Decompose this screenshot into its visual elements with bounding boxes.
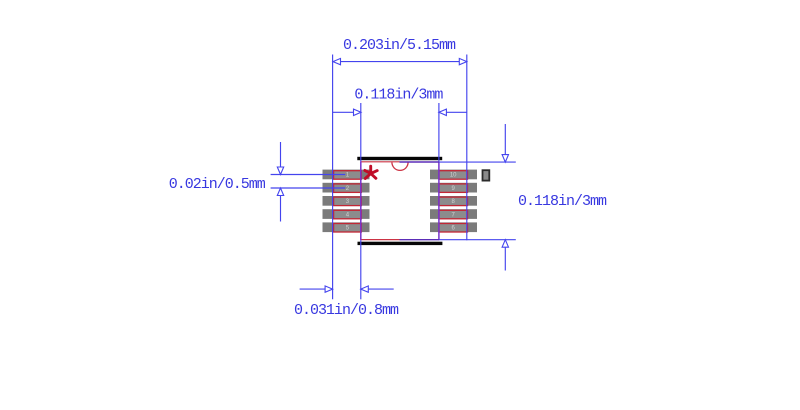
- svg-text:0.118in/3mm: 0.118in/3mm: [354, 87, 443, 104]
- pin 4 lead outline: [334, 210, 362, 219]
- extension line body-right above package (3mm top dimension): [438, 103, 440, 161]
- pad 9: [430, 183, 477, 193]
- pin 1 lead outline: [334, 171, 362, 180]
- package body bottom bar (silkscreen): [358, 242, 443, 245]
- svg-text:0.203in/5.15mm: 0.203in/5.15mm: [343, 37, 456, 54]
- pin 10 lead outline: [439, 171, 468, 180]
- pad 3: [323, 196, 370, 206]
- arrowhead 3mm right down: [502, 155, 508, 163]
- leader line body top to right (3mm right dimension): [439, 161, 516, 163]
- pin 5 lead outline: [334, 224, 362, 233]
- leader line pad2 center (0.5mm dimension): [271, 187, 346, 189]
- arrowhead 5.15mm left (points left): [333, 58, 341, 64]
- extension line body-left below package (0.8mm dimension): [360, 240, 362, 299]
- arrowhead 3mm right up: [502, 240, 508, 248]
- pin 7 lead outline: [439, 210, 468, 219]
- pad 10 (right copper pad): [430, 170, 477, 180]
- dimension line vertical lower (0.5mm): [280, 188, 282, 222]
- pin 2 lead outline: [334, 184, 362, 193]
- arrowhead 0.5mm up: [277, 188, 283, 196]
- dimension arrow tail left (0.8mm bottom): [300, 288, 333, 290]
- svg-text:10: 10: [450, 173, 457, 179]
- arrowhead 0.5mm down: [277, 167, 283, 175]
- pin 1 marker asterisk: [365, 166, 377, 178]
- dimension arrow tail right (3mm top): [439, 111, 467, 113]
- pad 7: [430, 209, 477, 219]
- dimension arrow tail right (0.8mm bottom): [361, 288, 394, 290]
- leader overlap purple segment body bottom edge: [400, 239, 439, 241]
- leader line body bottom to right (3mm right dimension): [439, 239, 516, 241]
- pin 9 lead outline: [439, 184, 468, 193]
- pin 3 lead outline: [334, 197, 362, 206]
- extension line right (5.15mm dimension): [466, 55, 468, 241]
- pin 6 lead outline: [439, 224, 468, 233]
- dimension line vertical upper (0.5mm): [280, 142, 282, 175]
- leader overlap purple segment body top edge: [400, 161, 439, 163]
- package body outline top edge: [361, 161, 400, 163]
- extension line left (5.15mm / 0.8mm dimension): [332, 55, 334, 300]
- arrowhead 0.8mm left (points right): [325, 286, 333, 292]
- pad 5: [323, 222, 370, 232]
- package body right edge (overlapped by blue extension line, purple): [438, 161, 440, 240]
- dimension line 5.15mm: [333, 61, 467, 63]
- dimension arrow tail left (3mm top): [333, 111, 361, 113]
- dimension line vertical lower (3mm right): [504, 240, 506, 271]
- extension line body-left above package (3mm top dimension): [360, 103, 362, 161]
- arrowhead 0.8mm right (points left): [361, 286, 369, 292]
- pin 1 index notch (semicircle): [392, 162, 408, 170]
- arrowhead 5.15mm right (points right): [459, 58, 467, 64]
- svg-text:0.02in/0.5mm: 0.02in/0.5mm: [169, 176, 266, 193]
- fiducial square right of pin 10: [483, 170, 490, 180]
- pad 1 (left copper pad): [323, 170, 370, 180]
- pin 8 lead outline: [439, 197, 468, 206]
- pad 8: [430, 196, 477, 206]
- pad 4: [323, 209, 370, 219]
- dimension line vertical upper (3mm right): [504, 124, 506, 162]
- package body left edge (overlapped by blue extension line, purple): [360, 161, 362, 240]
- arrowhead 3mm top right (points left): [439, 109, 447, 115]
- pad 6: [430, 222, 477, 232]
- package body outline bottom edge: [361, 239, 400, 241]
- arrowhead 3mm top left (points right): [354, 109, 362, 115]
- package body top bar (silkscreen): [357, 157, 442, 160]
- leader line pad1 center (0.5mm dimension): [271, 174, 346, 176]
- svg-text:0.031in/0.8mm: 0.031in/0.8mm: [294, 302, 399, 319]
- svg-text:0.118in/3mm: 0.118in/3mm: [518, 193, 607, 210]
- pad 2: [323, 183, 370, 193]
